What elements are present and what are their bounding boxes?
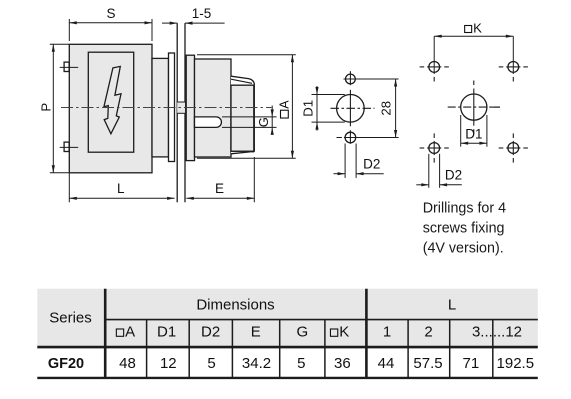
svg-text:D1: D1 (301, 100, 316, 117)
svg-text:D1: D1 (157, 323, 176, 340)
svg-text:E: E (251, 323, 261, 340)
svg-text:Dimensions: Dimensions (196, 296, 274, 313)
svg-text:D2: D2 (445, 167, 462, 182)
svg-text:G: G (256, 117, 271, 127)
svg-text:1: 1 (383, 323, 391, 340)
svg-text:71: 71 (463, 355, 480, 372)
svg-text:34.2: 34.2 (242, 355, 271, 372)
svg-text:2: 2 (424, 323, 432, 340)
svg-text:3......12: 3......12 (472, 323, 522, 340)
svg-text:D2: D2 (201, 323, 220, 340)
svg-text:G: G (296, 323, 308, 340)
svg-text:5: 5 (297, 355, 305, 372)
svg-text:44: 44 (378, 355, 395, 372)
svg-text:192.5: 192.5 (497, 355, 535, 372)
svg-text:S: S (106, 6, 115, 21)
svg-text:1-5: 1-5 (192, 6, 212, 21)
svg-text:36: 36 (334, 355, 351, 372)
svg-text:5: 5 (207, 355, 215, 372)
svg-text:K: K (339, 323, 349, 340)
svg-text:K: K (473, 21, 482, 36)
svg-text:L: L (448, 296, 456, 313)
svg-text:E: E (215, 181, 224, 196)
svg-text:Drillings for 4: Drillings for 4 (423, 200, 506, 216)
svg-text:(4V version).: (4V version). (423, 240, 504, 256)
svg-text:48: 48 (119, 355, 136, 372)
svg-text:L: L (117, 181, 125, 196)
svg-text:P: P (39, 103, 54, 112)
svg-text:Series: Series (49, 310, 92, 327)
svg-text:12: 12 (160, 355, 177, 372)
svg-text:GF20: GF20 (48, 356, 84, 372)
svg-text:D1: D1 (465, 126, 482, 141)
svg-text:screws fixing: screws fixing (423, 220, 505, 236)
svg-text:A: A (125, 323, 135, 340)
svg-text:57.5: 57.5 (413, 355, 442, 372)
svg-text:28: 28 (379, 101, 394, 116)
svg-text:D2: D2 (363, 157, 380, 172)
svg-text:A: A (277, 100, 291, 109)
